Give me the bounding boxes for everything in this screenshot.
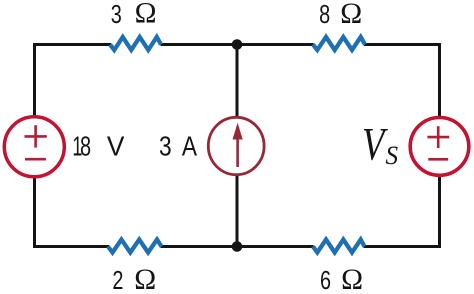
svg-text:Ω: Ω [135,0,157,30]
resistor R2 8ohm [313,37,365,50]
svg-text:Ω: Ω [341,264,363,294]
label R4 unit ohm [341,264,363,294]
label R3 unit ohm [134,264,156,294]
node top junction [232,39,243,50]
svg-text:3: 3 [159,131,172,162]
label I1 unit A [182,131,197,162]
voltage source V1 minus [25,158,46,161]
voltage source V1 plus [25,125,47,147]
voltage source VS circle [410,117,469,175]
label R2 value digit 8 [319,0,330,29]
svg-text:V: V [107,131,125,162]
label R1 value digit 3 [111,0,122,29]
current source I1 arrow [233,123,243,167]
label VS letter V [362,118,388,170]
label V1 value digit 1 [72,131,82,162]
current source I1 circle [208,117,264,174]
wire top rail left segment [33,43,111,46]
wire bottom rail right segment [364,245,442,248]
svg-text:Ω: Ω [134,264,156,294]
svg-text:V: V [362,118,388,170]
label R3 value digit 2 [112,265,123,294]
wire bottom rail left segment [33,245,109,248]
resistor R1 3ohm [110,37,161,50]
wire right branch [438,43,441,248]
resistor R4 6ohm [313,240,365,253]
svg-text:A: A [182,131,197,162]
svg-text:2: 2 [112,265,123,294]
svg-text:8: 8 [319,0,330,29]
wire top rail right segment [364,43,441,46]
svg-text:3: 3 [111,0,122,29]
svg-text:6: 6 [320,265,331,294]
wire bottom rail middle segment [161,245,314,248]
node bottom junction [232,241,243,252]
voltage source VS minus [428,158,448,161]
label R4 value digit 6 [320,265,331,294]
voltage source V1 18V circle [4,117,64,177]
label V1 unit V [107,131,125,162]
svg-text:8: 8 [80,131,91,162]
resistor R3 2ohm [108,240,162,253]
wire left branch [33,43,36,248]
label R2 unit ohm [340,0,362,30]
svg-text:Ω: Ω [340,0,362,30]
label V1 value digit 8 [80,131,91,162]
wire top rail middle segment [161,43,314,46]
label I1 value 3 [159,131,172,162]
wire middle branch [236,43,239,248]
voltage source VS plus [427,126,449,148]
label R1 unit ohm [135,0,157,30]
label VS subscript S [386,140,399,170]
svg-text:S: S [386,140,399,170]
